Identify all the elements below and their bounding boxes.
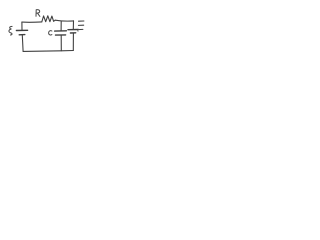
label c: [49, 31, 52, 35]
capacitor C upper lead: [60, 22, 62, 31]
wire right branch upper lead: [72, 21, 74, 30]
battery eps long plate: [16, 29, 27, 31]
battery eps short plate: [19, 34, 25, 36]
label E bars: [79, 20, 84, 22]
label epsilon: [9, 26, 12, 35]
wire bottom: [23, 50, 73, 53]
resistor R1 zigzag: [42, 16, 55, 22]
battery E short plate: [70, 32, 75, 34]
capacitor C bottom plate: [56, 34, 66, 36]
wire resistor to top-right corner: [55, 19, 73, 22]
capacitor C top plate: [55, 30, 67, 32]
wire left branch lower lead: [21, 35, 24, 51]
wire top-left to resistor: [22, 21, 42, 23]
capacitor C lower lead: [60, 35, 62, 51]
label R: [36, 10, 40, 17]
wire right branch lower lead: [72, 33, 74, 51]
battery E long plate: [68, 29, 78, 31]
wire left branch upper lead: [21, 22, 23, 30]
